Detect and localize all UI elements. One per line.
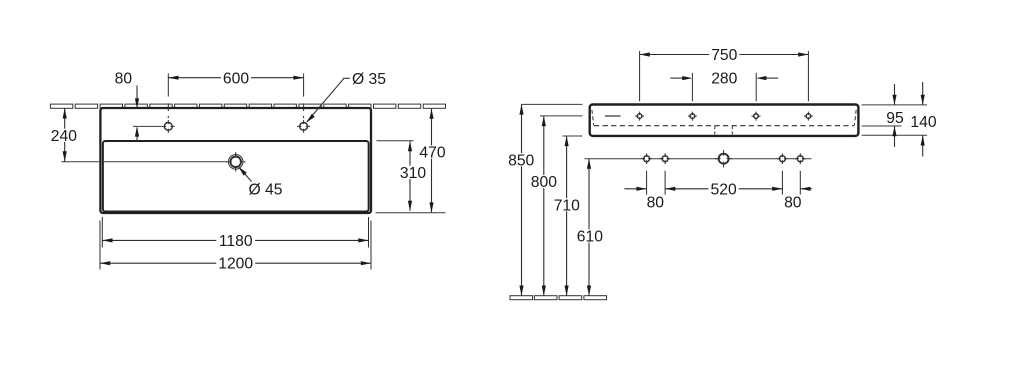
dim 280 arrows xyxy=(670,77,682,79)
drain ticks xyxy=(235,152,237,158)
deck hole 3 xyxy=(754,114,759,119)
dim 800 extension xyxy=(540,115,583,117)
hidden left edge (dashed) xyxy=(592,110,594,126)
dim 1200 line xyxy=(100,262,371,264)
mounting holes centerline xyxy=(585,158,812,160)
right extension middle xyxy=(862,125,902,127)
basin inner bowl edge (top view) xyxy=(103,141,369,212)
faucet hole left xyxy=(164,123,172,131)
svg-text:80: 80 xyxy=(784,194,802,211)
deck hole 1 xyxy=(637,114,642,119)
svg-text:95: 95 xyxy=(886,110,904,127)
dim 610 line xyxy=(588,159,590,296)
dim 1180 line xyxy=(102,239,368,241)
dim 95 label xyxy=(884,111,906,124)
dim 750 label xyxy=(709,48,739,61)
dim 850 line xyxy=(521,104,523,295)
dim 80 right line xyxy=(800,188,812,190)
svg-text:610: 610 xyxy=(577,229,603,246)
svg-text:800: 800 xyxy=(531,174,557,191)
dim 80 right label xyxy=(782,195,804,208)
dim 80 upper arrow xyxy=(136,86,138,108)
dim 1200 label xyxy=(216,256,255,269)
drain outer circle xyxy=(228,155,243,170)
svg-text:850: 850 xyxy=(508,152,534,169)
svg-text:520: 520 xyxy=(711,181,737,198)
dim 470 label xyxy=(417,145,447,158)
dim 280 label xyxy=(709,72,739,85)
dim 800 label xyxy=(529,175,559,188)
dim Ø 45 label xyxy=(246,182,284,195)
mounting hole far-right xyxy=(797,156,803,162)
basin outer rim (top view) xyxy=(100,108,371,213)
dim 800 line xyxy=(543,116,545,296)
dim 600 line xyxy=(168,77,303,79)
drain inner circle xyxy=(230,157,241,168)
dim 710 line xyxy=(566,136,568,296)
svg-text:Ø 45: Ø 45 xyxy=(248,182,282,199)
dim 140 arrows xyxy=(922,82,924,105)
mounting hole left xyxy=(662,156,668,162)
dim 80 label xyxy=(113,71,135,84)
leader to right faucet hole xyxy=(343,77,352,79)
mounting hole far-left xyxy=(644,156,650,162)
wall section band (top view) xyxy=(50,104,72,108)
dim 850 label xyxy=(506,153,536,166)
dim 470 extension bottom xyxy=(376,212,446,214)
svg-text:1180: 1180 xyxy=(219,233,253,250)
dim 850 extension xyxy=(522,103,583,105)
floor section band xyxy=(510,296,533,300)
overflow slot mark xyxy=(605,115,621,117)
dim 310 extension top xyxy=(377,140,414,142)
centerline dashes right hole xyxy=(303,103,305,111)
dim 710 label xyxy=(552,198,582,211)
dim Ø 35 label xyxy=(350,72,388,85)
dim 600 label xyxy=(221,71,251,84)
dim 600 extension right xyxy=(303,73,305,96)
dim 310 label xyxy=(398,166,428,179)
dim 1180 label xyxy=(216,234,255,247)
dim 310 line xyxy=(409,141,411,211)
svg-text:80: 80 xyxy=(647,194,665,211)
dim 240 line xyxy=(64,108,66,161)
basin body (front view) xyxy=(590,105,859,136)
svg-text:710: 710 xyxy=(554,197,580,214)
dim 520/80 extensions xyxy=(646,171,648,195)
leader to drain xyxy=(239,168,251,182)
dim 750 line xyxy=(640,54,809,56)
hidden drain recess (dashed) xyxy=(714,126,716,135)
dim 80 left label xyxy=(645,195,667,208)
svg-text:310: 310 xyxy=(400,165,426,182)
svg-text:470: 470 xyxy=(419,145,445,162)
dim 95 arrows xyxy=(894,84,896,105)
mounting hole center xyxy=(719,154,729,164)
svg-text:280: 280 xyxy=(711,71,737,88)
dim 240 label xyxy=(49,129,79,142)
right extension top xyxy=(862,104,928,106)
dim 1200 extensions xyxy=(99,221,101,270)
dim 610 label xyxy=(575,229,605,242)
dim 80 lower arrow xyxy=(136,128,138,141)
svg-text:600: 600 xyxy=(223,70,249,87)
svg-text:750: 750 xyxy=(711,47,737,64)
deck hole 2 xyxy=(690,114,695,119)
svg-text:140: 140 xyxy=(910,114,936,131)
centerline dashes left hole xyxy=(167,103,169,111)
svg-text:Ø 35: Ø 35 xyxy=(352,71,386,88)
dim 80 left line xyxy=(624,188,646,190)
dim 520 label xyxy=(709,182,739,195)
faucet hole right xyxy=(300,123,308,131)
dim 600 extension left xyxy=(167,73,169,96)
dim 140 label xyxy=(908,115,938,128)
dim 1180 extensions xyxy=(101,217,103,248)
svg-text:1200: 1200 xyxy=(218,255,253,272)
svg-text:80: 80 xyxy=(115,71,133,88)
dim 710 extension xyxy=(563,135,583,137)
hidden bottom edge (dashed) xyxy=(594,125,854,127)
dim 280 extensions xyxy=(691,73,693,101)
dim 80 helper line xyxy=(133,125,162,127)
right extension bottom xyxy=(862,134,928,136)
mounting hole right xyxy=(779,156,785,162)
drain centerline xyxy=(61,161,226,163)
hidden right edge (dashed) xyxy=(854,110,856,126)
dim 520 line xyxy=(665,188,782,190)
dim 750 extensions xyxy=(639,51,641,101)
deck hole 4 xyxy=(806,114,811,119)
svg-text:240: 240 xyxy=(51,128,77,145)
dim 470 line xyxy=(431,109,433,213)
